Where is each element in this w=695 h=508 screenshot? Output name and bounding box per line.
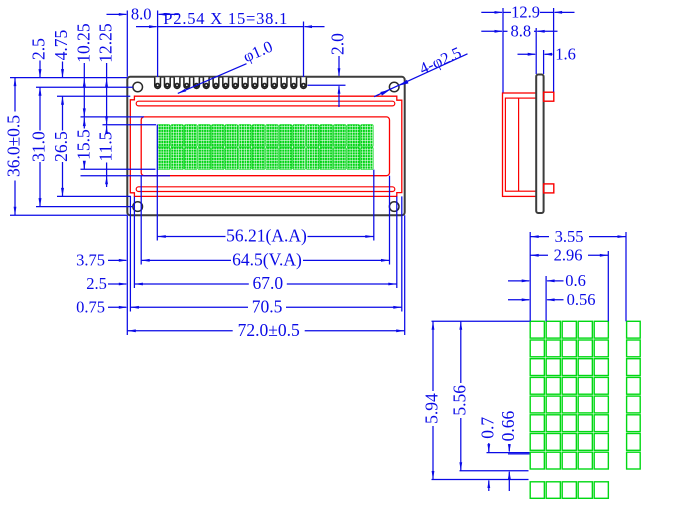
dimension 31.0 (hole centers vertical) <box>39 87 41 130</box>
extension line V.A left <box>140 176 142 265</box>
dimension 26.5 (bezel height) <box>62 96 64 130</box>
extension line A.A right <box>373 170 375 241</box>
dimension 8.0 (edge to pin 1) <box>126 11 128 77</box>
extension line bezel left <box>129 196 131 311</box>
extension line cell left <box>529 232 531 321</box>
character cell dot grid 5x8 <box>530 321 544 338</box>
svg-text:2.96: 2.96 <box>554 246 583 265</box>
svg-text:8.8: 8.8 <box>510 22 531 41</box>
svg-text:12.9: 12.9 <box>511 3 540 22</box>
leader φ1.0 (pad hole diameter) <box>178 64 247 94</box>
side view LCD glass edge <box>518 98 520 191</box>
svg-text:67.0: 67.0 <box>252 273 283 293</box>
svg-text:26.5: 26.5 <box>51 131 71 162</box>
pin header pads 1-16 (P2.54 pitch) <box>155 77 161 88</box>
svg-text:0.6: 0.6 <box>565 271 586 290</box>
dimension 36.0±0.5 (module height) <box>14 78 16 112</box>
extension line hole center top <box>36 86 133 88</box>
svg-text:0.56: 0.56 <box>567 290 596 309</box>
extension line display bottom <box>81 168 156 170</box>
dimension 5.56 (character height) <box>460 321 462 383</box>
dimension 2.0 (edge to pin row) <box>338 56 340 76</box>
extension line bezel right <box>401 196 403 311</box>
svg-text:64.5(V.A): 64.5(V.A) <box>232 250 302 270</box>
extension line PCB rear <box>543 50 545 74</box>
svg-text:8.0: 8.0 <box>131 5 152 24</box>
adjacent character first column <box>627 321 641 338</box>
dimension 72.0±0.5 module width <box>127 330 232 332</box>
side view PCB board <box>536 75 543 214</box>
dimension 70.5 bezel width <box>130 306 248 308</box>
extension line module top <box>10 77 127 79</box>
extension line bezel front <box>502 8 504 93</box>
bezel top flange slot <box>136 101 395 106</box>
LCD module PCB outline (front view) <box>127 77 404 216</box>
side view bezel outer profile <box>503 93 537 196</box>
side view bezel tab bottom <box>544 184 554 193</box>
mounting hole top-left <box>133 82 143 92</box>
dimension 8.8 (bezel depth) <box>481 30 502 32</box>
dimension 0.56 (dot width) <box>508 299 529 301</box>
svg-text:0.7: 0.7 <box>477 417 497 439</box>
leader 4-φ2.5 (mounting holes) <box>374 54 468 97</box>
svg-text:36.0±0.5: 36.0±0.5 <box>4 115 24 177</box>
svg-text:5.56: 5.56 <box>449 385 469 416</box>
extension line window top <box>81 116 145 118</box>
extension line bezel tab right <box>396 196 398 288</box>
extension line dot col 2 <box>545 276 547 321</box>
svg-text:56.21(A.A): 56.21(A.A) <box>226 226 307 246</box>
extension line bezel top <box>57 95 130 97</box>
next row first dot row <box>530 482 544 499</box>
dimension 12.9 (overall depth) <box>481 11 502 13</box>
dimension 12.25 (top edge to display) <box>106 63 108 125</box>
dimension 0.7 (dot pitch vertical) <box>488 443 490 452</box>
svg-text:72.0±0.5: 72.0±0.5 <box>238 320 300 340</box>
extension line PCB front <box>535 28 537 74</box>
dimension 56.21(A.A) active area <box>157 236 225 238</box>
dimension 10.25 (top edge to window) <box>83 63 85 117</box>
svg-text:0.66: 0.66 <box>498 410 518 441</box>
dimension 1.6 (PCB thickness) <box>518 53 536 55</box>
extension line cell top <box>432 320 530 322</box>
extension line display top <box>103 124 157 126</box>
dimension 67.0 bezel tabs width <box>134 283 248 285</box>
svg-text:2.0: 2.0 <box>328 33 348 55</box>
svg-text:P2.54 X 15=38.1: P2.54 X 15=38.1 <box>163 9 288 28</box>
svg-text:2.5: 2.5 <box>29 38 49 60</box>
extension line A.A left <box>156 125 158 241</box>
extension line cell pitch bottom <box>432 479 529 481</box>
mounting hole bottom-right <box>389 202 399 212</box>
extension line module right <box>404 215 406 335</box>
svg-text:4.75: 4.75 <box>51 29 71 60</box>
dimension 5.94 (character pitch vertical) <box>432 321 434 391</box>
extension line tab rear <box>553 8 555 92</box>
extension line V.A right <box>389 176 391 265</box>
svg-text:3.75: 3.75 <box>76 251 105 270</box>
extension line cell right <box>607 251 609 321</box>
LCD character blocks 16x2 (A.A) <box>157 125 170 147</box>
svg-text:70.5: 70.5 <box>252 297 283 317</box>
svg-text:31.0: 31.0 <box>29 131 49 162</box>
dimension 2.96 (character width) <box>530 254 548 256</box>
extension line hole center bottom <box>36 206 133 208</box>
extension line cell bottom <box>460 470 529 472</box>
extension line cell pitch right <box>625 232 627 321</box>
mounting hole top-right <box>389 82 399 92</box>
dimension 0.66 (dot height) <box>508 444 510 451</box>
dimension 3.55 (character pitch) <box>530 236 549 238</box>
bezel bottom flange slot <box>136 187 395 192</box>
svg-text:10.25: 10.25 <box>73 23 93 63</box>
extension line module left <box>126 215 128 335</box>
dimension 64.5(V.A) viewing area <box>141 259 231 261</box>
extension line module bottom <box>10 214 127 216</box>
dimension 2.5 (top edge to hole center) <box>39 61 41 78</box>
svg-text:2.5: 2.5 <box>86 274 107 293</box>
extension line bezel tab left <box>133 196 135 288</box>
display window (V.A) outline <box>141 117 389 176</box>
svg-text:15.5: 15.5 <box>73 129 93 160</box>
dimension 4.75 (top edge to bezel) <box>62 62 64 78</box>
mounting hole bottom-left <box>133 202 143 212</box>
extension line window bottom <box>81 175 171 177</box>
svg-text:5.94: 5.94 <box>422 393 442 424</box>
svg-text:11.5: 11.5 <box>96 131 116 161</box>
metal bezel outer outline <box>130 96 402 196</box>
svg-text:0.75: 0.75 <box>76 298 105 317</box>
side view bezel inner profile <box>505 98 536 191</box>
svg-text:3.55: 3.55 <box>555 227 584 246</box>
dimension 11.5 (display area height) <box>106 126 108 130</box>
dimension 0.6 (dot pitch horizontal) <box>508 280 529 282</box>
extension line dot row 8 top <box>487 452 530 454</box>
dimension P2.54 X 15=38.1 (pin pitch) <box>303 22 305 78</box>
svg-text:12.25: 12.25 <box>96 23 116 63</box>
side view bezel tab top <box>544 92 554 101</box>
dimension 15.5 (window to display bottom) <box>83 118 85 129</box>
svg-text:1.6: 1.6 <box>555 45 576 64</box>
extension line bezel bottom <box>57 195 131 197</box>
